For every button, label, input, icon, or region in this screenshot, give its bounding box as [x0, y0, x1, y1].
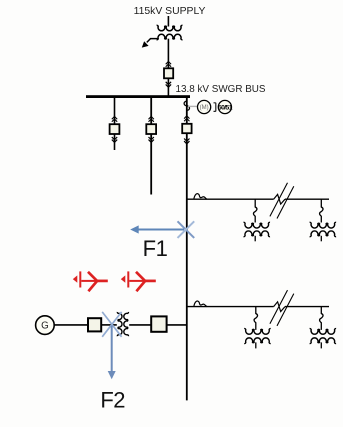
transformer drop branch1 left — [253, 199, 257, 222]
transformer drop branch2 right — [320, 307, 324, 330]
CT symbol on main drop — [184, 101, 189, 110]
fault X F2 — [102, 312, 121, 337]
switch squiggle branch2 — [194, 301, 207, 307]
label 13.8 kV SWGR BUS — [176, 84, 266, 95]
transformer T3 primary (vertical) — [117, 312, 122, 336]
transformer T2a primary — [244, 222, 271, 228]
transformer T2a secondary — [244, 231, 271, 237]
branch bus 1 — [187, 198, 329, 200]
drawout chevron above breaker F1a — [112, 116, 117, 121]
wire breaker to T3 — [101, 324, 117, 326]
label F2 — [100, 388, 125, 413]
transformer drop branch2 left — [254, 307, 257, 330]
relay connector line — [188, 105, 198, 107]
drawout chevron below main breaker — [184, 139, 189, 144]
transformer T1 primary winding — [157, 25, 183, 30]
drawout chevron below supply breaker — [166, 82, 171, 87]
aircraft icon 2 — [121, 271, 156, 291]
branch bus 2 — [187, 306, 329, 308]
wire main vertical — [186, 97, 188, 400]
source arrow at T1 — [142, 39, 158, 48]
drawout chevron below breaker F1a — [112, 137, 117, 142]
drawout chevron above breaker F2a — [149, 116, 154, 121]
fault X F1 — [178, 221, 195, 238]
drawout chevron above supply breaker — [166, 61, 171, 66]
wire breaker2 to main vertical — [167, 324, 187, 326]
breaker main — [182, 124, 191, 133]
line break symbol branch2 — [270, 290, 294, 326]
svg-text:F2: F2 — [100, 388, 125, 413]
generator G — [36, 316, 55, 335]
transformer T1 secondary winding — [157, 34, 183, 39]
breaker feeder1 — [110, 124, 120, 134]
line break symbol branch1 — [270, 183, 294, 219]
svg-text:(M): (M) — [200, 105, 209, 111]
aircraft icon 1 — [73, 271, 108, 291]
svg-text:F1: F1 — [143, 236, 168, 261]
drawout chevron above main breaker — [184, 116, 189, 121]
svg-text:G: G — [41, 321, 49, 332]
stub below T2b — [320, 236, 322, 242]
breaker feeder2 — [146, 124, 156, 134]
stub below T2a — [254, 236, 256, 242]
stub below T4a — [255, 342, 257, 348]
label 115kV SUPPLY — [134, 6, 206, 17]
arrow F1 — [130, 225, 184, 233]
relay M1 — [198, 100, 211, 113]
svg-text:115kV SUPPLY: 115kV SUPPLY — [134, 6, 206, 17]
relay 50/51 — [218, 100, 233, 113]
label F1 — [143, 236, 168, 261]
breaker generator — [88, 318, 101, 331]
arrow F2 — [108, 326, 116, 380]
bracket — [214, 103, 216, 112]
bus 13.8kV — [86, 95, 190, 98]
wire G to breaker — [54, 324, 88, 326]
transformer T2b primary — [310, 222, 337, 228]
transformer T4b secondary — [310, 338, 337, 344]
transformer T4a secondary — [244, 338, 271, 344]
transformer T2b secondary — [310, 231, 337, 237]
svg-text:13.8 kV SWGR BUS: 13.8 kV SWGR BUS — [176, 84, 266, 95]
transformer T4b primary — [310, 329, 337, 335]
wire T3 to breaker2 — [129, 324, 151, 326]
stub below T4b — [320, 342, 322, 348]
wire feeder2 — [150, 97, 152, 195]
breaker supply — [164, 68, 173, 78]
transformer T3 secondary (vertical) — [124, 312, 129, 336]
wire supply drop — [167, 16, 169, 27]
switch squiggle branch1 — [194, 194, 207, 200]
transformer drop branch1 right — [320, 199, 324, 222]
drawout chevron below breaker F2a — [149, 137, 154, 142]
breaker generator 2 — [151, 316, 166, 331]
wire T1 to breaker — [167, 39, 169, 96]
svg-text:50/51: 50/51 — [218, 105, 233, 112]
transformer T4a primary — [244, 329, 271, 335]
wire feeder1 — [114, 97, 116, 150]
